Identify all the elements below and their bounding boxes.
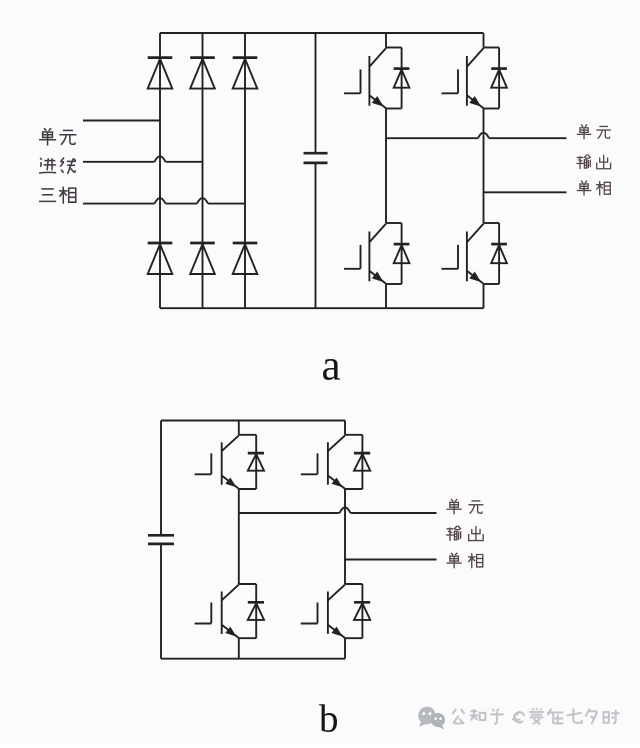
wire: b leg1 midsection bbox=[238, 489, 240, 584]
label: 单元 (b, row1) bbox=[447, 499, 484, 514]
wire: phase input line 3 with two crossover hops bbox=[83, 198, 245, 204]
capacitor C2 plates bbox=[148, 535, 174, 544]
transistor Q2b (upper-right IGBT with freewheel diode) bbox=[301, 435, 370, 489]
wire: b output line 2 (from leg2 midpoint) bbox=[345, 559, 437, 561]
transistor Q3 (lower-left IGBT with freewheel diode) bbox=[344, 223, 409, 284]
wire: b output line 1 (from leg1 midpoint, hops leg2) bbox=[239, 508, 437, 514]
label: 单元 (left, row1) bbox=[39, 128, 77, 146]
watermark: chat-bubble icon large bbox=[418, 707, 436, 727]
wire: rectifier leg 1 vertical bbox=[159, 33, 161, 308]
wire: b leg2 midsection bbox=[344, 489, 346, 584]
label: 单相 (right, row3) bbox=[577, 181, 610, 196]
wire: output line 2 (from leg2 midpoint) bbox=[484, 191, 567, 193]
wire: b leg1 collector drop bbox=[238, 421, 240, 435]
diode D1 (upper leg1) bbox=[148, 58, 173, 89]
wire: output line 1 (from leg1 midpoint, hops leg2) bbox=[386, 133, 567, 139]
wire: rectifier leg 2 vertical bbox=[202, 33, 204, 308]
diode D4 (lower leg1) bbox=[148, 243, 173, 274]
wire: bottom bus (circuit b) bbox=[161, 658, 345, 660]
svg-text:a: a bbox=[322, 343, 341, 390]
capacitor C1 bottom lead bbox=[315, 163, 317, 308]
wire: inverter leg2 midsection bbox=[483, 109, 485, 224]
diode D3 (upper leg3) bbox=[233, 58, 258, 89]
label: 进线 (left, row2) bbox=[39, 157, 76, 173]
diode D6 (lower leg3) bbox=[233, 243, 258, 274]
wire: inverter leg1 emitter to bus bbox=[385, 284, 387, 308]
wire: top bus (circuit b) bbox=[161, 420, 345, 422]
svg-text:b: b bbox=[319, 698, 339, 741]
label: 单相 (b, row3) bbox=[447, 553, 483, 568]
watermark: gray text 公知乎·@爱在七夕时 bbox=[452, 708, 619, 724]
wire: b leg1 emitter to bus bbox=[238, 638, 240, 659]
label: 输出 (right, row2) bbox=[576, 155, 610, 170]
transistor Q2 (upper-right IGBT with freewheel diode) bbox=[442, 48, 507, 109]
wire: inverter leg1 collector drop bbox=[385, 33, 387, 48]
capacitor C1 plates bbox=[304, 153, 328, 163]
label: 单元 (right, row1) bbox=[577, 124, 611, 139]
capacitor C2 bottom lead bbox=[160, 544, 162, 659]
transistor Q1 (upper-left IGBT with freewheel diode) bbox=[344, 48, 409, 109]
diode D2 (upper leg2) bbox=[190, 58, 215, 89]
wire: phase input line 1 bbox=[83, 120, 160, 122]
diode D5 (lower leg2) bbox=[190, 243, 215, 274]
wire: inverter leg2 emitter to bus bbox=[483, 284, 485, 308]
wire: bottom DC bus (circuit a) bbox=[160, 307, 484, 309]
label: 输出 (b, row2) bbox=[446, 526, 483, 541]
transistor Q4 (lower-right IGBT with freewheel diode) bbox=[442, 223, 507, 284]
transistor Q3b (lower-left IGBT with freewheel diode) bbox=[195, 584, 264, 638]
transistor Q4b (lower-right IGBT with freewheel diode) bbox=[301, 584, 370, 638]
wire: b leg2 emitter to bus bbox=[344, 638, 346, 659]
wire: phase input line 2 with crossover hop bbox=[83, 156, 203, 162]
wire: rectifier leg 3 vertical bbox=[244, 33, 246, 308]
capacitor C2 top lead bbox=[160, 421, 162, 536]
wire: inverter leg2 collector drop bbox=[483, 33, 485, 48]
capacitor C1 top lead bbox=[315, 33, 317, 153]
wire: b leg2 collector drop bbox=[344, 421, 346, 435]
wire: inverter leg1 midsection bbox=[385, 109, 387, 224]
label: 三相 (left, row3) bbox=[39, 187, 76, 204]
transistor Q1b (upper-left IGBT with freewheel diode) bbox=[195, 435, 264, 489]
wire: top DC bus (circuit a) bbox=[160, 32, 484, 34]
watermark: chat-bubble icon small bbox=[431, 713, 445, 730]
